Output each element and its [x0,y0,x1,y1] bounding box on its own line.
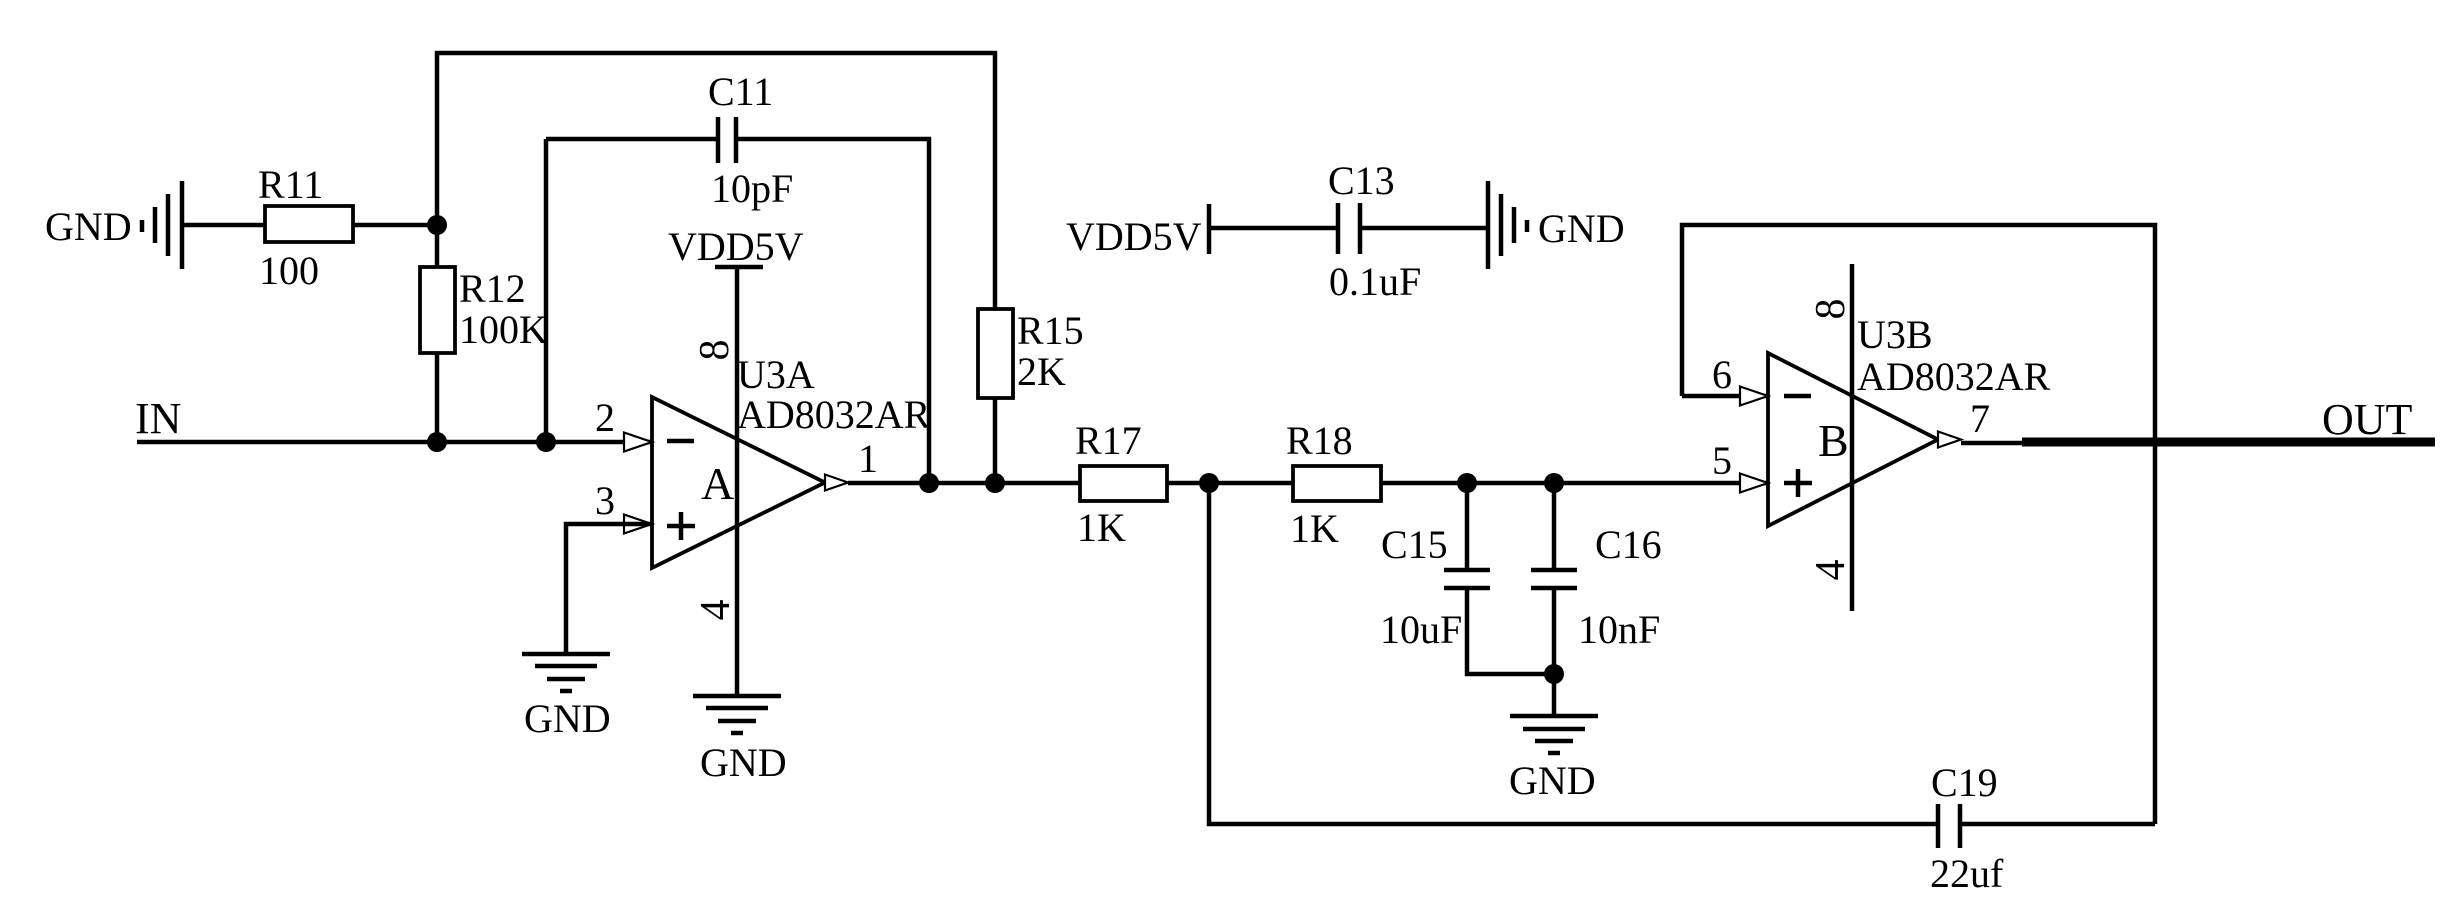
junction dot C15/C16 bottoms [1544,664,1564,684]
pin 5 arrow (U3B) [1740,474,1768,493]
svg-text:2: 2 [595,395,615,440]
svg-text:7: 7 [1970,396,1990,441]
wire OUT (thick) [2022,438,2435,447]
wire pin 6 [1682,394,1768,399]
svg-text:U3B: U3B [1857,312,1933,357]
wire C16 riser [1552,483,1557,570]
plus sign (U3B non-inverting input) [1784,469,1812,497]
wire node A down through R12 to IN line [435,225,440,442]
pin 2 arrow (U3A) [624,433,652,452]
resistor R18 [1293,466,1381,501]
output arrow (U3A pin 1) [825,475,848,491]
svg-text:10nF: 10nF [1578,607,1660,652]
resistor R17 [1080,466,1167,501]
svg-text:AD8032AR: AD8032AR [1857,354,2051,399]
junction dot IN/C11 branch [536,432,556,452]
ground (U3A pin 4) [693,696,781,733]
svg-text:OUT: OUT [2322,395,2413,444]
port tick VDD5V [1207,204,1212,254]
wire C15 bottom to C16 bottom [1467,588,1554,674]
svg-text:4: 4 [1808,560,1854,581]
svg-text:GND: GND [45,204,132,249]
wire pin 3 to ground [566,524,652,654]
capacitor C16 [1531,570,1577,588]
svg-text:C16: C16 [1595,522,1662,567]
resistor R11 [265,206,353,242]
resistor R12 [420,267,455,353]
wire U3B power line (pin 8 to pin 4) [1850,264,1855,611]
wire C16 bottom to ground [1552,588,1557,716]
junction dot C16 [1544,473,1564,493]
svg-text:8: 8 [692,340,738,361]
wire C11 left [546,137,718,142]
svg-text:GND: GND [524,696,611,741]
svg-text:22uf: 22uf [1930,851,2004,896]
junction dot IN/R12 [427,432,447,452]
svg-text:100: 100 [259,248,319,293]
capacitor C13 [1338,203,1360,254]
wire C13 to ground [1360,226,1488,231]
svg-text:10pF: 10pF [711,166,793,211]
svg-text:3: 3 [595,478,615,523]
svg-text:C19: C19 [1931,760,1998,805]
svg-text:1: 1 [858,436,878,481]
wire IN line [137,440,652,445]
capacitor C19 [1938,804,1960,848]
svg-text:A: A [701,458,734,509]
wire C11 right and drop to op-amp A output [736,139,929,483]
ground (C13) [1488,181,1527,269]
plus sign (U3A non-inverting input) [667,512,695,540]
pin 6 arrow (U3B) [1740,387,1768,406]
svg-text:R18: R18 [1286,418,1353,463]
svg-text:GND: GND [1538,206,1625,251]
wire op-amp A output to op-amp B pin 5 [848,481,1768,486]
wire pin 7 to OUT [1961,441,2022,446]
svg-text:100K: 100K [459,307,548,352]
junction dot R17/R18/C19 [1199,473,1219,493]
svg-text:C15: C15 [1381,522,1448,567]
svg-text:R15: R15 [1017,308,1084,353]
op-amp U3A triangle [652,397,825,568]
svg-text:VDD5V: VDD5V [668,224,804,269]
wire VDD5V to C13 [1209,226,1338,231]
pin 3 arrow (U3A) [624,515,652,534]
junction dot C15 [1457,473,1477,493]
ground (C15/C16) [1510,716,1598,753]
svg-text:C11: C11 [708,69,773,114]
wire top feedback (node A up and across to R15 top) [437,53,995,483]
wire feedback loop U3B (pin 6 box) [1682,225,2155,824]
ground (input bias GND symbol) [142,181,182,269]
output arrow (U3B pin 7) [1938,432,1961,448]
wire C15 riser [1465,483,1470,570]
svg-text:5: 5 [1712,438,1732,483]
svg-text:1K: 1K [1077,505,1126,550]
capacitor C15 [1444,570,1490,588]
minus sign (U3A inverting input) [667,439,694,444]
svg-text:R11: R11 [258,162,323,207]
svg-text:10uF: 10uF [1380,607,1462,652]
svg-text:C13: C13 [1328,158,1395,203]
resistor R15 [978,309,1013,398]
junction dot R15 bottom [985,473,1005,493]
svg-text:2K: 2K [1017,349,1066,394]
node A junction dot [427,215,447,235]
capacitor C11 [718,117,736,163]
ground (U3A pin 3) [522,654,610,691]
svg-text:GND: GND [700,740,787,785]
svg-text:VDD5V: VDD5V [1066,214,1202,259]
svg-text:R17: R17 [1075,418,1142,463]
svg-text:IN: IN [135,394,181,443]
svg-text:GND: GND [1509,758,1596,803]
svg-text:8: 8 [1808,299,1854,320]
power bar VDD5V [715,265,763,270]
op-amp U3B triangle [1768,353,1938,526]
wire C19 right to feedback vertical [1960,822,2155,827]
wire GND to R11 to node A [182,223,437,228]
svg-text:0.1uF: 0.1uF [1329,259,1421,304]
svg-text:6: 6 [1712,352,1732,397]
svg-text:R12: R12 [459,266,526,311]
minus sign (U3B inverting input) [1784,394,1811,399]
svg-text:U3A: U3A [737,352,815,397]
wire C11 branch riser [544,139,549,442]
svg-text:4: 4 [693,600,739,621]
wire VDD5V power line through U3A (pin 8 to pin 4) [735,267,740,696]
wire C19 feedback bottom [1209,483,1938,824]
junction dot C11 drop [919,473,939,493]
svg-text:1K: 1K [1290,506,1339,551]
svg-text:AD8032AR: AD8032AR [737,392,931,437]
svg-text:B: B [1818,415,1849,466]
